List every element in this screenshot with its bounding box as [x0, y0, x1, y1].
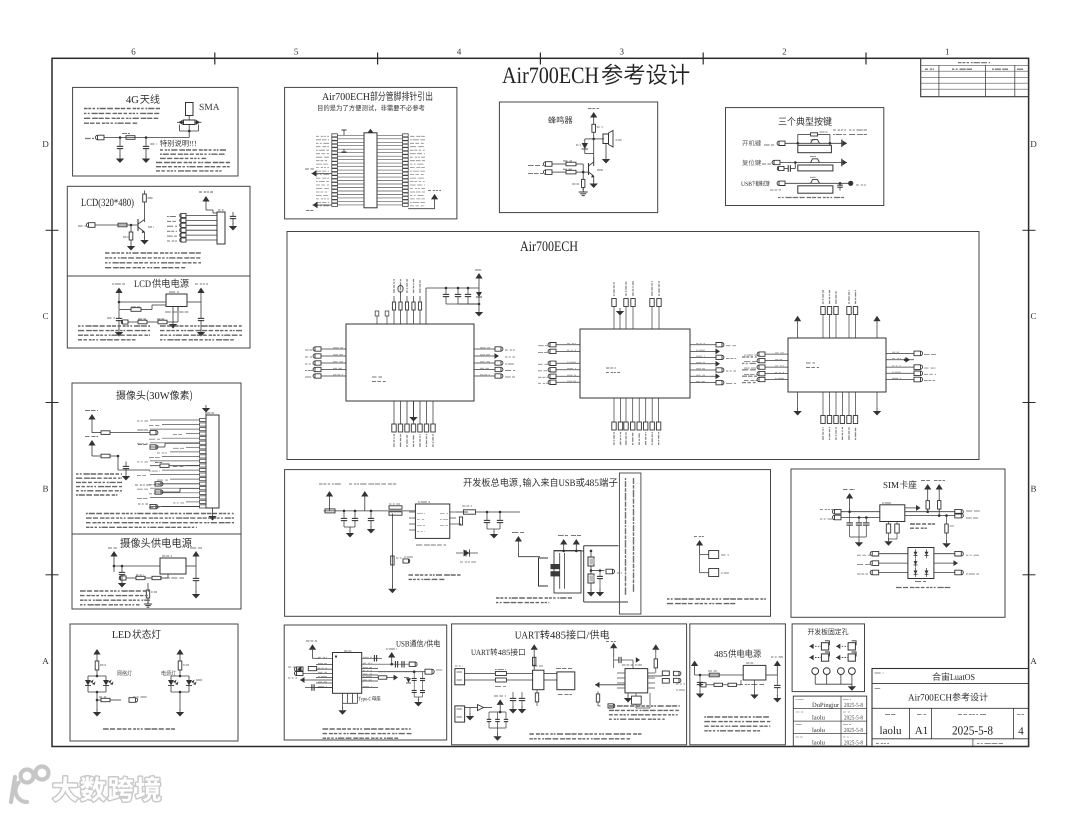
left LED join wire	[87, 686, 89, 693]
left LED pair D1 D2	[88, 675, 106, 677]
usb connector right pins	[362, 657, 378, 659]
pull-down resistor R_lcd2	[130, 225, 132, 232]
main input rail	[324, 510, 416, 512]
usb row2 wire with caps	[378, 663, 409, 665]
camera power note text	[80, 590, 150, 592]
LCD power note text left	[78, 325, 150, 327]
usb right power arrow	[388, 652, 395, 658]
U3 left pads and wires	[757, 352, 765, 356]
title LCD供电电源	[134, 280, 138, 287]
pull resistor below	[147, 583, 149, 590]
sim data wires	[841, 511, 880, 513]
vertical note text in column	[625, 478, 627, 480]
U1 bottom ground mid	[413, 401, 415, 415]
sim reset arrow	[905, 507, 917, 509]
title LCD(320*480)	[81, 199, 85, 206]
buzzer ground right	[605, 144, 607, 158]
485 output power arrow	[774, 661, 781, 667]
485 input resistor	[709, 673, 719, 677]
sim connector bottom caps	[888, 522, 890, 525]
fuse F1 F2	[495, 672, 506, 676]
uart note text right	[609, 705, 680, 707]
usb out pad 5V	[425, 669, 434, 674]
sim left pads	[832, 509, 841, 514]
button2 debounce capacitor to pad	[794, 161, 797, 164]
note text antenna placement	[84, 108, 160, 110]
button3 switch S3	[811, 180, 820, 184]
U1 left side pads and wires	[313, 347, 321, 351]
rail to sub blocks	[518, 556, 540, 558]
schottky diode D_pwr	[465, 550, 467, 557]
ground for C_ant1	[116, 159, 124, 164]
button1 label 开机键	[742, 141, 748, 146]
left cap + ground	[113, 566, 115, 572]
input cap C_in	[118, 310, 120, 319]
U1 vdd power arrow	[475, 273, 482, 279]
note 特别说明!!!	[160, 140, 167, 147]
usb socket outer loop	[554, 551, 581, 594]
usb vbus main wire	[378, 671, 414, 673]
ground under C_out	[197, 332, 205, 337]
U1 top pin vertical labels	[393, 279, 395, 293]
buzzer series resistor	[592, 124, 596, 132]
mounting hole pads 2x2	[809, 644, 813, 649]
usb socket vbus pins dark pads	[551, 564, 561, 569]
matching resistor R_ant	[126, 136, 135, 140]
sheet title Air700ECH参考设计	[502, 67, 516, 83]
mid connector pads row1	[150, 430, 158, 434]
date 2025-5-8	[952, 726, 956, 734]
ground under Q_lcd	[140, 240, 148, 245]
decoupling cap C_lcd	[232, 212, 234, 216]
zone tick marks left and right	[46, 229, 59, 231]
output sense resistor	[456, 523, 461, 525]
block box 摄像头供电电源	[72, 534, 241, 609]
5v rail power arrow mid	[515, 536, 522, 542]
size A1	[915, 727, 923, 734]
title 开发板总电源,输入来自USB或485端子	[463, 478, 471, 486]
button2 key body rect	[798, 165, 833, 171]
title block row dividers	[872, 683, 1029, 685]
right sub-circuit pads	[700, 553, 709, 555]
regulator ground stem	[177, 307, 179, 312]
power box top small labels	[319, 483, 341, 485]
block box 三个典型按键	[726, 108, 884, 206]
usb shield pins	[342, 693, 344, 703]
button2 input pad	[772, 160, 780, 164]
block box Air700ECH部分管脚排针引出	[285, 87, 457, 219]
isolated transceiver U485b	[625, 669, 648, 693]
right LED pair	[171, 675, 189, 677]
U1 bottom pins	[393, 401, 395, 424]
label 电源灯	[162, 670, 166, 676]
LCD power note text right	[160, 325, 242, 327]
block box Air700ECH main	[287, 232, 979, 460]
resistor under U485b	[632, 696, 642, 704]
U2 right far labels	[742, 356, 757, 358]
mid connector pads row3	[155, 482, 163, 486]
feedback resistor divider	[121, 320, 128, 324]
485 regulator U_485	[743, 665, 766, 680]
resistor below left	[597, 691, 599, 694]
regulator IC U_cam	[160, 558, 186, 574]
title SIM卡座	[884, 482, 888, 488]
U1 right side pads and wires	[474, 348, 495, 350]
input pads	[544, 162, 553, 167]
buzzer element B1	[594, 138, 604, 140]
input wire to regulator	[119, 301, 166, 303]
button1 key body rect	[798, 145, 832, 152]
tvs diode vertical top	[533, 657, 535, 670]
title Air700ECH部分管脚排针引出	[322, 93, 329, 100]
pull-up resistor R_lcd top	[144, 191, 146, 195]
usb row5 cap	[311, 687, 333, 689]
title block thin row texts	[876, 743, 889, 745]
caps under terminal	[512, 692, 514, 698]
button1 switch S1	[811, 140, 820, 144]
drawn by laolu	[880, 726, 883, 734]
sim pull resistors pair	[926, 501, 929, 510]
fiducial ground	[848, 686, 856, 691]
mid connector pads row4	[150, 504, 158, 508]
output caps	[486, 512, 488, 520]
fiducial circles row	[812, 668, 819, 675]
left LED resistor R_led1	[95, 661, 99, 670]
block box 蜂鸣器	[499, 102, 657, 213]
esd left pads	[870, 551, 878, 556]
left LED output pad	[129, 698, 137, 703]
left arrow net label mid	[312, 170, 317, 176]
U2 top pins and pads	[613, 307, 615, 329]
input power arrows	[326, 491, 333, 497]
sim power arrow left	[846, 493, 853, 499]
buzzer power arrow	[590, 112, 597, 118]
right LED resistor	[178, 661, 182, 670]
camera note text left column	[76, 473, 122, 475]
left LED circuit power arrow	[93, 649, 100, 655]
button1 right terminator	[841, 140, 843, 148]
U2 right rows	[690, 344, 716, 346]
power arrow bottom right LCD_3V3	[431, 194, 438, 200]
U3 bottom grounds	[797, 392, 799, 409]
watermark logo 100 bottom left	[11, 767, 49, 803]
base resistors	[552, 163, 566, 165]
block box UART转485接口/供电	[452, 624, 687, 745]
U1 vdd ground	[478, 304, 480, 310]
series resistor R_cam1	[92, 432, 101, 434]
note text under dcdc	[409, 574, 461, 576]
title 4G天线	[126, 96, 131, 103]
U1 decoupling caps group	[445, 288, 447, 294]
LCD connector J_lcd	[217, 212, 225, 244]
485 input wire	[695, 674, 744, 676]
zone labels left letters	[43, 141, 49, 147]
485 fb resistors	[700, 683, 706, 687]
left column ground	[388, 589, 396, 594]
sim caps column left	[849, 512, 851, 523]
revision table top right	[921, 58, 1029, 96]
usb cc pad row4	[300, 677, 305, 683]
power arrow CAM_1V8	[88, 440, 95, 446]
power arrow isolated side	[610, 643, 617, 649]
terminal block J485 upper	[455, 669, 465, 685]
lower terminal block	[455, 706, 465, 722]
dcdc converter U_pwr SGM6130	[415, 504, 449, 538]
parallel resistor pair	[389, 506, 402, 509]
bottom right note text	[667, 598, 766, 600]
U1 top pins with series resistors	[393, 310, 395, 324]
left LED ground	[96, 700, 98, 710]
camera connector bottom ground	[212, 508, 214, 514]
title USB通信/供电	[396, 641, 401, 646]
ground under C_in	[115, 332, 123, 337]
ground for C_ant2	[142, 159, 150, 164]
sim note text right of connector	[910, 523, 935, 525]
title LED状态灯	[112, 631, 117, 638]
block box 摄像头(30W像素)	[72, 383, 241, 534]
button3 net junction dot	[848, 181, 853, 186]
zone labels top digits	[132, 49, 136, 55]
title 摄像头供电电源	[120, 538, 130, 548]
pullup resistor right	[652, 644, 659, 650]
485 input caps	[699, 675, 701, 682]
top rail wire	[554, 550, 584, 552]
transistor ground	[590, 184, 598, 189]
esd diodes inside	[914, 552, 918, 556]
sheet frame border	[52, 58, 1029, 746]
mid connector pads row2	[150, 445, 158, 449]
common mode choke T1	[533, 670, 544, 690]
transistor Q_buz	[593, 157, 595, 166]
input caps group1	[343, 511, 345, 518]
button1 wire	[785, 142, 842, 144]
watermark text 大数跨境	[53, 776, 161, 801]
block box LCD 320x480	[67, 186, 250, 276]
LED note text	[103, 728, 175, 730]
485 regulator ground	[754, 680, 756, 692]
usb bulk caps ground	[417, 697, 419, 700]
button3 input pad	[777, 181, 785, 185]
button3 label USB下载模式键	[741, 182, 745, 186]
ground under U485b	[627, 693, 629, 696]
pin header body J_hdr	[364, 133, 377, 208]
label 网络灯	[117, 671, 121, 676]
tall note column box	[619, 473, 641, 614]
power arrow LCD_3V3	[202, 196, 209, 202]
sheet title Air700ECH参考设计 in title block	[908, 694, 914, 700]
label SMA	[200, 104, 204, 110]
usb connector left pins	[316, 657, 333, 659]
title 蜂鸣器	[548, 116, 556, 124]
U1 vdd diode	[478, 288, 480, 292]
signal arrow left of U485b	[595, 682, 600, 688]
button3 wire	[785, 182, 851, 184]
left arrow net label bottom	[313, 202, 318, 208]
button1 pullup loop with resistor	[797, 134, 799, 143]
series resistor R_cam2	[92, 455, 101, 457]
LCD box note text	[105, 252, 201, 254]
sublabel UART转485接口	[471, 650, 476, 655]
usb dp dm series resistors	[308, 667, 316, 671]
pull-down resistor at base	[582, 172, 584, 179]
cap at isolated vcc	[613, 657, 615, 668]
usb right vbus cap	[373, 657, 378, 659]
approval table left	[793, 696, 866, 746]
output pads 485 A B	[648, 675, 663, 677]
flyback diode D_buz	[592, 138, 595, 141]
button2 switch S2	[811, 159, 820, 163]
camera connector pins	[200, 418, 207, 421]
U3 right rows	[886, 352, 914, 354]
ground for C_lcd	[229, 226, 237, 231]
transistor Q_lcd NPN	[137, 219, 139, 231]
485 power note text	[704, 716, 769, 718]
block box LCD供电电源	[67, 276, 250, 348]
electrolytic cap EC2	[590, 566, 592, 574]
usb row4 resistor and arrow	[377, 677, 379, 679]
zone labels right letters	[1031, 141, 1037, 147]
note labels top right	[833, 129, 846, 131]
pin header rows	[332, 134, 338, 137]
usb row4 diode down	[404, 677, 409, 679]
ntc pads	[403, 559, 410, 563]
esd right pads	[934, 553, 955, 555]
module U1 Air700ECH left	[346, 324, 474, 401]
vbus power arrows	[560, 539, 567, 545]
U1 top rc component	[400, 292, 402, 296]
feedback network left column	[391, 514, 393, 571]
sim right resistor to ground	[946, 516, 948, 524]
module U2 Air700ECH middle	[580, 329, 690, 398]
sim connector U_sim	[880, 505, 905, 522]
note box step outline	[584, 545, 619, 547]
title block outer box	[872, 669, 1029, 747]
SMA connector J1	[186, 103, 194, 116]
regulator IC U_lcd	[166, 294, 187, 307]
block box LED状态灯	[70, 624, 238, 741]
label Type-C母座	[358, 697, 360, 701]
uart note text bottom	[529, 733, 641, 735]
U1 top bus wire	[425, 288, 427, 324]
vertical distribution wire	[117, 456, 119, 470]
right LED circuit power arrow	[176, 649, 183, 655]
terminal wires	[465, 673, 496, 675]
output power arrow LCD_3V3	[197, 288, 204, 294]
resistor below choke	[536, 690, 538, 693]
right sub-circuit power arrow	[696, 540, 703, 546]
ground under R_lcd2	[127, 246, 135, 251]
output cap C_out	[200, 302, 202, 318]
block box 4G antenna	[73, 87, 238, 176]
block box USB通信/供电	[284, 625, 447, 740]
usb shield ground	[338, 710, 346, 715]
title 三个典型按键	[779, 118, 787, 125]
485 output wire and cap	[766, 674, 777, 676]
U3 top power arrows	[794, 316, 801, 322]
mid node resistor pad	[591, 570, 604, 572]
note text mid bottom	[496, 597, 572, 599]
485 power arrow input	[691, 661, 698, 667]
camera connector top ground	[205, 410, 207, 415]
usb socket bracket left	[539, 558, 549, 586]
button3 key body rect	[798, 186, 833, 193]
sim power arrows right pair	[924, 484, 931, 490]
ground marks on left pin column	[343, 130, 345, 135]
U1 top left small pads	[376, 316, 378, 324]
power arrow input 5V	[115, 288, 122, 294]
lower ground	[469, 708, 471, 715]
power arrow top choke	[531, 644, 538, 650]
block box 开发板固定孔	[792, 624, 864, 692]
bypass caps C_cam	[125, 462, 127, 467]
left LED series resistor	[97, 699, 101, 701]
antenna feed wire	[96, 135, 105, 140]
LCD backlight input pad	[87, 223, 96, 228]
transceiver U485a	[557, 672, 575, 690]
usb left cap row1	[316, 657, 320, 659]
input wire	[114, 565, 160, 567]
module U3 Air700ECH right	[788, 338, 886, 392]
output cap	[195, 566, 197, 578]
block box 485供电电源	[690, 624, 786, 745]
U3 top pin pads	[822, 315, 824, 339]
button3 series capacitor	[839, 182, 841, 185]
shunt capacitor C_ant2	[145, 138, 147, 147]
feedback resistors	[119, 576, 126, 580]
button2 right terminator	[841, 159, 843, 167]
block box SIM卡座	[791, 469, 1005, 617]
usb type-c connector J_usb	[333, 653, 362, 694]
esd label	[915, 581, 926, 583]
camera connector J_cam	[206, 415, 219, 508]
block box 开发板总电源	[285, 470, 771, 617]
sim right wires to pads	[905, 511, 955, 513]
button2 wire	[780, 162, 842, 164]
usb bulk caps pair	[413, 672, 415, 678]
camera note text bottom	[86, 513, 234, 515]
base pull-down ground IEC style	[582, 188, 584, 192]
U2 top ground	[619, 313, 621, 329]
mid resistor row	[160, 464, 169, 467]
title Air700ECH	[520, 241, 528, 251]
input caps	[121, 566, 123, 572]
usb note text	[323, 728, 411, 730]
mid cap to ground	[599, 571, 601, 577]
usb dp dm pads	[295, 667, 304, 672]
esd array box U_esd	[908, 548, 934, 579]
button2 label 复位键	[742, 160, 748, 166]
dcdc output inductor	[456, 511, 468, 513]
U2 left pads and wires	[548, 343, 556, 347]
U3 bottom pin pads	[822, 392, 824, 416]
extra bypass cap on rail	[370, 511, 372, 518]
title 开发板固定孔	[808, 629, 814, 635]
enable resistor R_en	[118, 302, 120, 309]
sim note bottom	[896, 587, 950, 589]
sheet number 4	[1018, 727, 1023, 734]
base resistor R_lcd	[118, 223, 127, 227]
approval names and dates	[812, 703, 816, 707]
electrolytic cap EC1	[590, 551, 592, 557]
LCD connector top pin to power	[206, 209, 213, 211]
button1 input pad	[777, 141, 785, 145]
title UART转485接口/供电	[515, 632, 521, 639]
EC ground	[587, 592, 595, 597]
right LED join and ground	[170, 686, 172, 693]
power arrow CAM_3V3	[88, 414, 95, 420]
title 摄像头(30W像素)	[116, 390, 125, 400]
title block big row cell dividers	[909, 708, 911, 739]
